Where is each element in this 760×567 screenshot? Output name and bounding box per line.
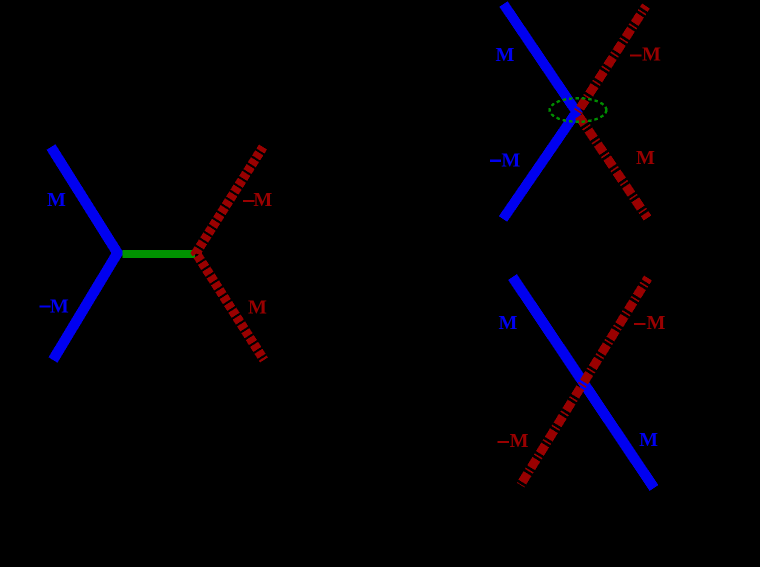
top-right label -M (red, upper-right) xyxy=(630,54,642,56)
left diagram: green coupling segment xyxy=(123,250,196,258)
svg-text:M: M xyxy=(639,429,658,451)
svg-text:M: M xyxy=(248,297,267,319)
bottom-right label -M (red, upper-right) xyxy=(634,323,646,325)
bottom-right diagram: red dash-dot straight line xyxy=(521,278,649,485)
svg-text:M: M xyxy=(636,147,655,169)
top-right diagram: green dashed ellipse around crossing xyxy=(550,98,607,122)
top-right label -M (blue, lower-left) xyxy=(490,160,501,162)
left diagram label -M (red, upper-right) xyxy=(243,200,255,202)
svg-text:M: M xyxy=(510,430,529,452)
top-right diagram: red dash-dot lower branch xyxy=(579,116,648,218)
svg-text:M: M xyxy=(50,296,69,318)
top-right diagram: blue bent line xyxy=(503,4,577,219)
svg-text:M: M xyxy=(642,44,661,66)
svg-text:M: M xyxy=(47,189,66,211)
svg-text:M: M xyxy=(253,189,272,211)
svg-text:M: M xyxy=(495,44,514,66)
svg-text:M: M xyxy=(501,149,520,171)
left diagram label -M (blue, lower-left) xyxy=(40,306,51,308)
left diagram: red dashed branches xyxy=(196,147,264,360)
left diagram: blue adiabatic branches xyxy=(51,147,118,360)
svg-text:M: M xyxy=(647,312,666,334)
svg-text:M: M xyxy=(498,312,517,334)
bottom-right diagram: blue straight line xyxy=(513,277,655,488)
top-right diagram: red dash-dot bent line xyxy=(577,6,646,113)
bottom-right label -M (red, lower-left) xyxy=(497,441,509,443)
